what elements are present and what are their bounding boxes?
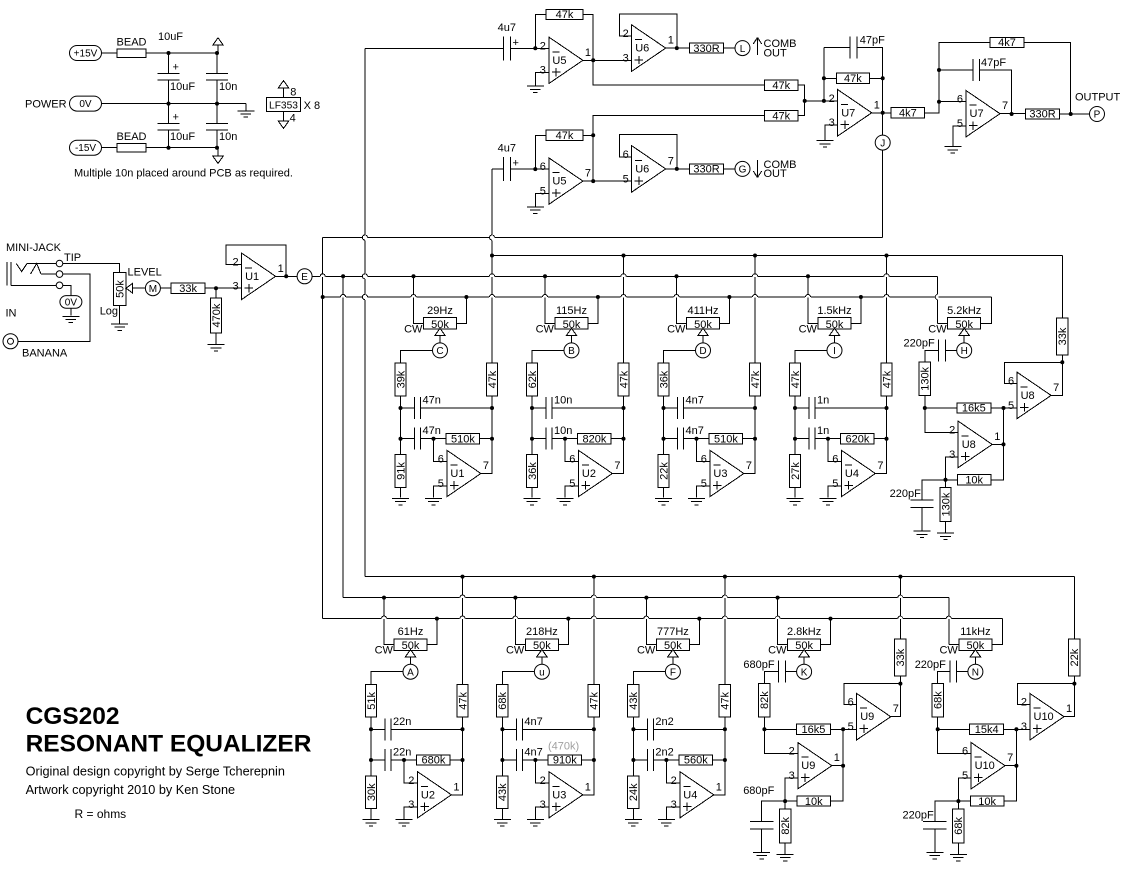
resistor 680k (feedback) xyxy=(404,759,417,761)
ground xyxy=(70,308,72,315)
pot wiper arrow xyxy=(970,650,981,657)
wire pin- input xyxy=(535,760,548,783)
wire output to feedback node xyxy=(481,439,492,474)
svg-text:220pF: 220pF xyxy=(902,809,933,821)
wire bottom E bus H3b xyxy=(343,597,949,599)
wire pot left end xyxy=(414,276,424,323)
svg-text:3: 3 xyxy=(540,65,546,77)
resistor 510k (feedback) xyxy=(697,438,710,440)
ground xyxy=(527,85,544,87)
svg-text:27k: 27k xyxy=(790,462,802,480)
svg-text:6: 6 xyxy=(832,454,838,466)
power terminal -15V xyxy=(70,140,102,155)
resistor 33k (resonance tap to comb bus) xyxy=(899,577,901,640)
svg-text:U3: U3 xyxy=(713,468,727,480)
wire wiper node to R xyxy=(795,350,827,363)
resistor 330R (G output) xyxy=(690,164,724,174)
capacitor 47n (upper) xyxy=(401,407,415,409)
wire lower 4u7 vertical xyxy=(491,169,493,255)
junction xyxy=(592,758,596,762)
svg-text:5: 5 xyxy=(569,478,575,490)
svg-text:47k: 47k xyxy=(487,370,499,388)
svg-text:K: K xyxy=(801,667,808,678)
resistor 68k (to ground) xyxy=(957,801,959,809)
svg-text:Original design copyright by S: Original design copyright by Serge Tcher… xyxy=(26,765,285,779)
capacitor 220pF (to ground) xyxy=(935,801,959,821)
wire xyxy=(102,147,118,149)
wire ring line xyxy=(41,273,56,275)
potentiometer 50k (5.2kHz) xyxy=(948,318,981,330)
svg-text:+15V: +15V xyxy=(74,49,98,60)
svg-text:1: 1 xyxy=(278,263,284,275)
junction xyxy=(215,102,219,106)
junction xyxy=(215,146,219,150)
op-amp U10 buffer (upper) xyxy=(1030,694,1064,740)
svg-text:U2: U2 xyxy=(582,468,596,480)
ground xyxy=(787,497,804,499)
node H xyxy=(957,343,972,358)
svg-text:47k: 47k xyxy=(589,691,601,709)
wire xyxy=(462,729,464,760)
svg-text:8: 8 xyxy=(290,87,296,99)
op-amp U5 (pins 6/5/7) xyxy=(549,158,583,204)
svg-text:2: 2 xyxy=(789,746,795,758)
ground xyxy=(425,497,442,499)
ground xyxy=(245,104,247,111)
wire J feedback bus H1 xyxy=(323,237,883,239)
wire xyxy=(623,408,625,439)
wire xyxy=(146,147,217,149)
wire 10k to output xyxy=(831,729,844,801)
svg-text:2: 2 xyxy=(232,256,238,268)
svg-text:CW: CW xyxy=(667,323,686,335)
svg-text:OUTPUT: OUTPUT xyxy=(1075,92,1121,104)
wire wiper to M xyxy=(133,287,146,289)
wire pin+ down xyxy=(946,457,959,480)
ferrite bead BEAD (-15V) xyxy=(117,144,146,152)
svg-text:6: 6 xyxy=(848,697,854,709)
svg-text:3: 3 xyxy=(671,799,677,811)
capacitor 680pF (coupling) xyxy=(785,671,796,673)
wire xyxy=(102,52,118,54)
junction xyxy=(937,68,941,72)
svg-text:2.8kHz: 2.8kHz xyxy=(787,626,821,638)
svg-text:1: 1 xyxy=(1066,703,1072,715)
svg-text:U2: U2 xyxy=(421,789,435,801)
wire U5a output xyxy=(583,59,632,61)
svg-text:BEAD: BEAD xyxy=(117,131,147,143)
svg-text:4u7: 4u7 xyxy=(498,22,516,34)
wire pin6 xyxy=(535,168,549,170)
junction xyxy=(214,286,218,290)
svg-text:U3: U3 xyxy=(552,789,566,801)
wire input to lower comb xyxy=(492,168,504,170)
svg-text:+: + xyxy=(513,37,519,49)
svg-text:560k: 560k xyxy=(684,755,708,767)
capacitor 22n (upper) xyxy=(371,728,385,730)
junction xyxy=(1069,112,1073,116)
potentiometer 50k (218Hz) xyxy=(525,639,558,651)
svg-text:POWER: POWER xyxy=(25,98,67,110)
op-amp U5 (pins 2/3/1) xyxy=(549,37,583,83)
node G xyxy=(735,161,750,176)
svg-text:5: 5 xyxy=(701,478,707,490)
wire feedback to output xyxy=(583,15,593,61)
resistor 47k (U5b feedback) xyxy=(546,130,583,140)
svg-text:M: M xyxy=(149,284,157,295)
svg-text:Log: Log xyxy=(100,305,118,317)
svg-text:47k: 47k xyxy=(772,80,790,92)
wire xyxy=(798,85,805,101)
wire bus V1 (J) xyxy=(322,238,324,298)
wire cap to R xyxy=(925,350,939,362)
wire U5b output xyxy=(583,180,632,182)
resistor 47k (U7a feedback) xyxy=(836,73,869,83)
svg-text:68k: 68k xyxy=(953,816,965,834)
svg-text:680pF: 680pF xyxy=(743,785,774,797)
ground xyxy=(494,819,511,821)
svg-text:R = ohms: R = ohms xyxy=(75,807,127,821)
wire pot right end xyxy=(457,297,467,323)
svg-text:2: 2 xyxy=(1021,697,1027,709)
capacitor 10uF (0V to -15V) xyxy=(168,104,170,124)
junction xyxy=(530,437,534,441)
junction xyxy=(675,46,679,50)
wire U6a feedback pin2 to output xyxy=(620,14,677,48)
wire xyxy=(593,729,595,760)
junction xyxy=(662,437,666,441)
resistor 68k xyxy=(932,684,943,717)
junction xyxy=(500,727,504,731)
resistor 10k xyxy=(946,479,958,481)
svg-text:1: 1 xyxy=(668,35,674,47)
resistor 27k (to ground) xyxy=(794,439,796,455)
svg-text:15k4: 15k4 xyxy=(975,724,999,736)
svg-text:115Hz: 115Hz xyxy=(556,305,587,317)
junction xyxy=(753,406,757,410)
svg-text:33k: 33k xyxy=(1057,327,1069,345)
capacitor 10n (upper) xyxy=(532,407,546,409)
op-amp U3 (411Hz) xyxy=(710,450,744,496)
op-amp U8 buffer (upper) xyxy=(1017,372,1051,418)
wire pin- input xyxy=(404,760,417,783)
capacitor 4u7 (upper comb input) xyxy=(503,36,505,60)
svg-text:Artwork copyright 2010 by Ken: Artwork copyright 2010 by Ken Stone xyxy=(26,783,235,797)
wire pin- input xyxy=(434,439,447,462)
op-amp U7 (pins 2/3/1) xyxy=(838,90,872,136)
junction xyxy=(490,254,494,258)
svg-text:2: 2 xyxy=(671,775,677,787)
junction xyxy=(783,799,787,803)
wire pot left end xyxy=(515,598,525,645)
junction xyxy=(822,99,826,103)
capacitor 4n7 (upper) xyxy=(664,407,678,409)
junction xyxy=(412,274,416,278)
svg-text:6: 6 xyxy=(569,454,575,466)
junction xyxy=(762,727,766,731)
svg-text:CW: CW xyxy=(939,645,958,657)
junction xyxy=(341,274,345,278)
pot wiper arrow xyxy=(566,328,577,335)
svg-text:47k: 47k xyxy=(720,691,732,709)
svg-text:61Hz: 61Hz xyxy=(398,626,424,638)
wire mixer node xyxy=(805,100,838,102)
svg-text:680pF: 680pF xyxy=(743,659,774,671)
svg-text:MINI-JACK: MINI-JACK xyxy=(6,242,62,254)
op-amp U2 (61Hz) xyxy=(417,772,451,818)
svg-text:68k: 68k xyxy=(933,691,945,709)
resistor 62k xyxy=(526,363,537,396)
svg-text:510k: 510k xyxy=(451,433,475,445)
wire E bus end to pot left (5.2kHz) xyxy=(937,276,939,323)
node F xyxy=(665,664,680,679)
op-amp U7 (pins 6/5/7) xyxy=(966,91,1000,137)
node I xyxy=(827,343,842,358)
svg-text:33k: 33k xyxy=(895,648,907,666)
wire pot to ground xyxy=(119,306,121,324)
resistor 47k (to comb bus) xyxy=(623,256,625,364)
wire xyxy=(886,408,888,439)
junction xyxy=(631,758,635,762)
wire xyxy=(370,717,372,729)
wire cap to R xyxy=(764,672,778,684)
wire lower output xyxy=(992,443,1003,445)
svg-text:16k5: 16k5 xyxy=(962,403,986,415)
capacitor 4n7 (lower) xyxy=(502,759,516,761)
wire xyxy=(724,729,726,760)
ground xyxy=(820,497,837,499)
wire pin+ to ground xyxy=(697,486,710,498)
junction xyxy=(898,682,902,686)
svg-text:6: 6 xyxy=(1008,375,1014,387)
wire xyxy=(632,717,634,729)
wire pot right end xyxy=(720,297,730,323)
wire xyxy=(1059,113,1089,115)
svg-text:U7: U7 xyxy=(970,108,984,120)
svg-text:-15V: -15V xyxy=(75,143,96,154)
svg-text:411Hz: 411Hz xyxy=(688,305,719,317)
svg-text:7: 7 xyxy=(614,460,620,472)
wire U6b feedback pin6 to output xyxy=(620,135,677,169)
svg-text:4n7: 4n7 xyxy=(524,747,542,759)
wire xyxy=(663,396,665,408)
wire switch to banana vertical xyxy=(18,274,90,341)
svg-text:P: P xyxy=(1094,110,1101,121)
wire pot left end xyxy=(677,276,687,323)
junction xyxy=(631,727,635,731)
ground xyxy=(777,854,794,856)
wire xyxy=(531,408,533,439)
potentiometer 50k (1.5kHz) xyxy=(818,318,851,330)
op-amp U1 (29Hz) xyxy=(447,450,481,496)
capacitor 4n7 (upper) xyxy=(502,728,516,730)
resistor 10k xyxy=(958,800,970,802)
junction xyxy=(675,167,679,171)
svg-text:2: 2 xyxy=(540,40,546,52)
node E xyxy=(297,269,312,284)
svg-text:U4: U4 xyxy=(683,789,697,801)
junction xyxy=(215,51,219,55)
svg-text:47pF: 47pF xyxy=(860,34,885,46)
ground xyxy=(527,206,544,208)
LF353 V+ arrow pin 8 xyxy=(283,88,285,97)
capacitor 220pF (coupling) xyxy=(957,671,968,673)
wire E bus from E node xyxy=(312,275,938,277)
wire xyxy=(531,396,533,408)
resistor 330R (L output) xyxy=(690,43,724,53)
junction xyxy=(435,617,439,621)
svg-text:6: 6 xyxy=(962,746,968,758)
wire xyxy=(754,408,756,439)
svg-text:F: F xyxy=(670,667,676,678)
wire upper mixer tap xyxy=(593,60,764,85)
wire to feedback 47k xyxy=(535,15,546,49)
svg-text:7: 7 xyxy=(585,168,591,180)
capacitor 680pF (to ground) xyxy=(762,801,786,821)
svg-text:7: 7 xyxy=(877,460,883,472)
svg-text:43k: 43k xyxy=(497,783,509,801)
junction xyxy=(956,799,960,803)
ground xyxy=(625,819,642,821)
svg-text:5: 5 xyxy=(832,478,838,490)
wire pin6 xyxy=(939,101,966,103)
svg-text:130k: 130k xyxy=(940,492,952,516)
svg-text:777Hz: 777Hz xyxy=(657,626,689,638)
svg-text:1: 1 xyxy=(994,431,1000,443)
ground xyxy=(524,497,541,499)
junction xyxy=(167,51,171,55)
svg-text:+: + xyxy=(173,62,179,74)
svg-text:39k: 39k xyxy=(395,370,407,388)
junction xyxy=(530,406,534,410)
svg-text:330R: 330R xyxy=(693,164,719,176)
svg-text:5: 5 xyxy=(957,118,963,130)
svg-text:CW: CW xyxy=(637,645,656,657)
jack sleeve symbol xyxy=(6,262,8,285)
resistor 36k (to ground) xyxy=(531,439,533,455)
op-amp U6 (pins 2/3/1) unity buffer xyxy=(632,25,666,71)
svg-text:7: 7 xyxy=(483,460,489,472)
resistor 91k (to ground) xyxy=(400,439,402,455)
svg-text:10n: 10n xyxy=(219,131,237,143)
svg-text:CW: CW xyxy=(536,323,555,335)
svg-text:220pF: 220pF xyxy=(890,488,921,500)
potentiometer 50k (2.8kHz) xyxy=(788,639,821,651)
jack tip contact V xyxy=(16,264,27,272)
resistor 24k (to ground) xyxy=(632,760,634,776)
svg-text:5: 5 xyxy=(962,770,968,782)
wire xyxy=(724,168,736,170)
wire wiper node to R xyxy=(502,672,534,685)
capacitor 1n (upper) xyxy=(795,407,809,409)
junction xyxy=(1072,682,1076,686)
svg-text:24k: 24k xyxy=(628,783,640,801)
wire xyxy=(205,287,242,289)
svg-text:4: 4 xyxy=(290,112,296,124)
svg-text:33k: 33k xyxy=(179,283,197,295)
resistor 47k (to comb bus) xyxy=(886,256,888,364)
svg-text:CW: CW xyxy=(799,323,818,335)
pot wiper arrow xyxy=(126,283,133,293)
resistor 47k xyxy=(789,363,800,396)
resistor 30k (to ground) xyxy=(370,760,372,776)
junction xyxy=(321,295,325,299)
svg-text:22k: 22k xyxy=(1069,648,1081,666)
wire bottom comb bus H2b xyxy=(365,576,1075,578)
svg-text:B: B xyxy=(568,346,575,357)
wire output to feedback node xyxy=(744,439,755,474)
wire 10k to output xyxy=(1004,729,1017,801)
junction xyxy=(490,437,494,441)
svg-text:47pF: 47pF xyxy=(981,57,1006,69)
svg-text:0V: 0V xyxy=(79,99,92,110)
svg-text:U8: U8 xyxy=(962,439,976,451)
svg-text:3: 3 xyxy=(540,799,546,811)
svg-text:47k: 47k xyxy=(750,370,762,388)
svg-text:0V: 0V xyxy=(65,297,78,308)
junction xyxy=(923,406,927,410)
svg-text:LF353: LF353 xyxy=(269,100,298,111)
svg-text:470k: 470k xyxy=(211,303,223,327)
wire pin3 to ground xyxy=(535,73,549,86)
wire U7b output xyxy=(1000,113,1026,115)
svg-text:22n: 22n xyxy=(393,716,411,728)
junction xyxy=(881,76,885,80)
resistor 47k (to comb bus) xyxy=(491,256,493,364)
potentiometer 50k (777Hz) xyxy=(656,639,689,651)
svg-text:A: A xyxy=(407,667,414,678)
junction xyxy=(937,100,941,104)
wire pin+ to ground xyxy=(535,807,548,819)
wire U7a output xyxy=(872,112,892,114)
capacitor 4n7 (lower) xyxy=(664,438,678,440)
wire xyxy=(160,287,171,289)
svg-text:H: H xyxy=(961,346,968,357)
svg-text:X 8: X 8 xyxy=(304,100,321,112)
wire pin5 to ground xyxy=(953,126,966,146)
svg-text:U10: U10 xyxy=(975,760,995,772)
capacitor 10uF (+15V to 0V) xyxy=(168,53,170,74)
svg-text:47k: 47k xyxy=(772,110,790,122)
svg-text:U4: U4 xyxy=(845,468,859,480)
ground xyxy=(111,323,128,325)
capacitor 10n (lower) xyxy=(532,438,546,440)
svg-text:68k: 68k xyxy=(497,691,509,709)
op-amp U10 (lower) xyxy=(971,743,1005,789)
svg-text:CW: CW xyxy=(506,645,525,657)
svg-text:U7: U7 xyxy=(841,107,855,119)
resistor 820k (feedback) xyxy=(565,438,578,440)
junction xyxy=(592,575,596,579)
wire output to feedback node xyxy=(612,439,623,474)
svg-text:u: u xyxy=(539,667,545,678)
svg-text:OUT: OUT xyxy=(764,168,788,180)
svg-text:CW: CW xyxy=(928,323,947,335)
junction xyxy=(622,406,626,410)
wire buffer feedback xyxy=(1004,362,1062,395)
svg-text:2: 2 xyxy=(540,775,546,787)
svg-text:1: 1 xyxy=(716,781,722,793)
resistor 51k xyxy=(365,685,376,718)
wire bus V2 (E) down xyxy=(342,276,344,597)
svg-text:CW: CW xyxy=(375,645,394,657)
ground xyxy=(944,146,961,148)
junction xyxy=(898,575,902,579)
junction xyxy=(885,254,889,258)
svg-text:10k: 10k xyxy=(978,796,996,808)
pot wiper arrow xyxy=(435,328,446,335)
junction xyxy=(723,575,727,579)
